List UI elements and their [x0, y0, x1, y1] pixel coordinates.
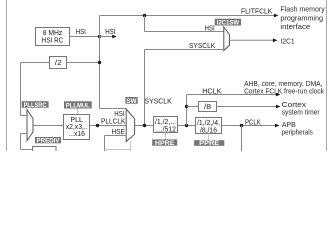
tick HPRE label — [165, 133, 167, 140]
label SW — [125, 97, 137, 105]
wire /2 to PLLSRC mux — [21, 63, 50, 116]
svg-text:programming: programming — [280, 13, 323, 22]
wire HSI stub arrow — [100, 35, 117, 39]
wire PREDIV to PLLSRC mux — [21, 134, 33, 150]
divider box HPRE /1,/2.../512 — [154, 117, 178, 134]
svg-text:Flash memory: Flash memory — [280, 5, 325, 14]
svg-text:PPRE: PPRE — [199, 140, 219, 147]
mux PLLSRC — [27, 110, 33, 141]
wire HSI to SW mux — [100, 108, 127, 110]
junction dot HCLK — [185, 124, 188, 127]
text Cortex system timer — [282, 100, 320, 116]
wire HCLK vertical — [186, 95, 188, 126]
svg-text:I2C1SW: I2C1SW — [217, 20, 240, 27]
svg-text:HPRE: HPRE — [155, 140, 175, 147]
label PLLSRC — [22, 101, 49, 109]
junction dot HSI — [98, 35, 101, 38]
text APB peripherals — [282, 120, 313, 136]
oscillator box 8 MHz HSI RC — [36, 28, 70, 46]
svg-text:/8: /8 — [204, 104, 211, 111]
svg-text:PLLMUL: PLLMUL — [66, 102, 90, 109]
label I2C1SW — [215, 19, 241, 27]
mux SW — [126, 109, 134, 142]
svg-text:HSI: HSI — [105, 27, 115, 36]
tick PLLMUL to PLL box — [77, 109, 79, 115]
svg-text:/2: /2 — [55, 60, 62, 67]
label HPRE — [152, 139, 177, 147]
divider box PPRE /1,/2,/4,/8,/16 — [196, 118, 222, 135]
text Flash memory programming interface — [280, 5, 325, 32]
junction dot — [98, 61, 101, 64]
junction dot /8 tap — [185, 105, 188, 108]
svg-text:PLL: PLL — [70, 117, 83, 124]
wire SYSCLK from SW mux — [135, 125, 154, 127]
divider box /8 — [199, 102, 217, 112]
svg-text:SYSCLK: SYSCLK — [144, 96, 171, 105]
svg-text:/8,/16: /8,/16 — [200, 127, 217, 134]
svg-text:SW: SW — [127, 98, 138, 105]
wire HSE to SW mux — [105, 136, 127, 152]
label PPRE — [194, 140, 224, 147]
svg-text:HSE: HSE — [112, 127, 125, 136]
svg-text:SYSCLK: SYSCLK — [189, 41, 215, 50]
wire SYSCLK to I2C1SW mux — [145, 50, 225, 126]
svg-text:PCLK: PCLK — [245, 118, 261, 127]
svg-text:...x16: ...x16 — [68, 131, 85, 138]
svg-text:I2C1: I2C1 — [280, 36, 294, 45]
svg-text:Cortex FCLK free-run clock: Cortex FCLK free-run clock — [244, 87, 324, 96]
divider box /2 — [50, 57, 67, 69]
text AHB core memory DMA Cortex FCLK free-run clock — [244, 79, 324, 96]
wire HSI RC output — [70, 36, 100, 38]
faint cropped box bottom center — [105, 141, 131, 151]
svg-text:PLLCLK: PLLCLK — [101, 117, 125, 126]
svg-text:HSI: HSI — [205, 24, 215, 33]
svg-text:HCLK: HCLK — [202, 87, 221, 96]
wire HSI to I2C1SW mux — [145, 16, 225, 32]
wire to /8 — [187, 106, 199, 108]
wire HSI to /2 divider — [67, 62, 100, 64]
svg-text:8 MHz: 8 MHz — [43, 30, 63, 37]
wire I2C1 output — [229, 38, 277, 42]
svg-text:HSI: HSI — [76, 27, 86, 36]
wire FLITFCLK top — [100, 14, 279, 18]
wire HCLK bus — [178, 125, 196, 127]
wire /8 to Cortex timer — [217, 105, 281, 109]
junction dot top — [143, 14, 146, 17]
wire PLLCLK — [90, 125, 127, 127]
junction dot PLLCLK — [96, 124, 99, 127]
svg-text:HSI: HSI — [114, 109, 124, 118]
svg-text:/1,/2,/4,: /1,/2,/4, — [197, 120, 220, 127]
svg-text:/1,/2,...: /1,/2,... — [155, 119, 176, 126]
svg-text:PREDIV: PREDIV — [37, 138, 60, 145]
wire HSI vertical trunk — [99, 16, 101, 109]
label PREDIV — [35, 137, 61, 145]
right figure border — [326, 0, 328, 151]
svg-text:system timer: system timer — [282, 107, 320, 116]
junction dot PCLK — [240, 124, 243, 127]
svg-text:FLITFCLK: FLITFCLK — [241, 6, 272, 15]
svg-text:interface: interface — [280, 22, 310, 31]
junction dot SYSCLK — [143, 124, 146, 127]
divider box PREDIV (cropped) — [33, 147, 57, 155]
wire PCLK vertical — [241, 126, 243, 152]
wire PLLSRC mux to PLL — [34, 125, 64, 127]
tick PPRE label — [208, 134, 210, 141]
svg-text:...,/512: ...,/512 — [155, 126, 176, 133]
label PLLMUL — [64, 101, 92, 109]
svg-text:PLLSRC: PLLSRC — [24, 102, 47, 109]
mux I2C1SW — [224, 27, 230, 51]
pll box PLL x2,x3..x16 — [64, 115, 90, 140]
svg-text:HSI RC: HSI RC — [42, 38, 64, 45]
svg-text:x2,x3,..: x2,x3,.. — [66, 124, 88, 131]
wire PCLK — [222, 124, 280, 128]
svg-text:peripherals: peripherals — [282, 127, 313, 136]
left figure border — [6, 0, 8, 151]
wire HCLK to AHB — [187, 93, 281, 97]
